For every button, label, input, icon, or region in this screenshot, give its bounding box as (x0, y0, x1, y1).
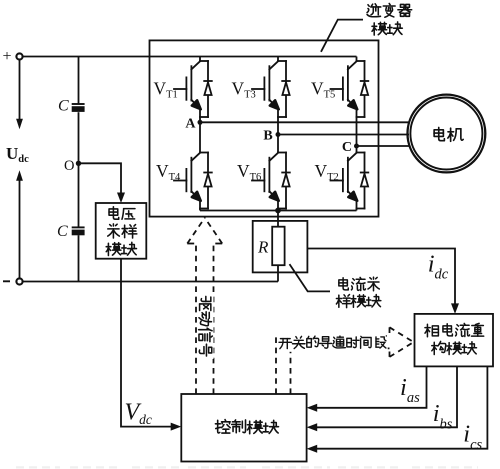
wire emitter lead upper leg B to node B (277, 109, 279, 135)
voltage sampling module box (96, 203, 147, 259)
phase current reconstruction module box (415, 314, 494, 367)
current sampling module box around R (253, 221, 308, 273)
terminal - (negative DC input) (3, 280, 10, 282)
wire emitter lead lower leg C (356, 200, 358, 210)
svg-text:C: C (58, 98, 69, 115)
node O junction dot (76, 161, 81, 166)
faint scan artifact row (16, 466, 478, 468)
wire capacitor branch lower (78, 235, 80, 281)
svg-text:C: C (342, 140, 352, 155)
transistor VT3 with freewheeling diode (252, 61, 290, 117)
wire emitter lead lower leg A (199, 200, 201, 210)
dashed switch conduction period arrow band (276, 336, 390, 394)
wire collector lead upper leg B (277, 57, 279, 62)
svg-text:B: B (263, 129, 272, 144)
capacitor C (lower) (72, 226, 85, 228)
motor M circle (408, 95, 486, 173)
capacitor C (upper) (72, 103, 85, 105)
wire collector lead upper leg C (356, 57, 358, 62)
wire emitter lead upper leg C to node C (356, 109, 358, 146)
svg-text:+: + (3, 48, 12, 65)
wire phase B to motor (278, 134, 409, 136)
label current sampling module (dian liu cai / yang mo kuai) (339, 278, 348, 290)
wire bottom DC rail (23, 281, 278, 283)
wire inverter bottom rail (200, 210, 357, 212)
wire ics from reconstruction to control (316, 366, 488, 448)
wire collector lead lower leg B (277, 135, 279, 153)
wire phase A to motor (200, 121, 409, 123)
transistor VT6 with freewheeling diode (252, 153, 290, 209)
wire collector lead lower leg A (199, 122, 201, 152)
wire collector lead upper leg A (199, 57, 201, 62)
resistor R (272, 227, 284, 266)
dashed drive signal arrow shafts (196, 244, 214, 395)
svg-text:C: C (57, 223, 68, 240)
svg-text:A: A (185, 117, 196, 132)
wire ias from reconstruction to control (316, 366, 427, 407)
wire emitter lead lower leg B (277, 200, 279, 210)
inverter module box (150, 40, 379, 216)
wire idc from shunt to reconstruction module (307, 249, 455, 305)
label inverter module (ni bian qi / mo kuai) (367, 4, 381, 17)
Udc measurement down arrow (19, 60, 21, 120)
wire bridge to shunt resistor R (277, 211, 279, 227)
label control module (kong zhi mo kuai) (215, 420, 230, 433)
dashed drive signal arrow head (187, 218, 222, 244)
wire capacitor branch upper (78, 57, 80, 105)
node B junction dot (276, 132, 281, 137)
Udc measurement up arrow (19, 180, 21, 278)
wire emitter lead upper leg A to node A (199, 109, 201, 123)
node C junction dot (354, 144, 359, 149)
svg-text:R: R (257, 238, 269, 257)
label motor (dian ji) (434, 127, 444, 140)
wire phase C to motor (357, 145, 410, 147)
wire shunt resistor to bottom rail (277, 265, 279, 281)
wire top DC rail (23, 56, 357, 58)
wire node O to voltage sampling module (79, 163, 122, 194)
label voltage sampling module text (109, 207, 119, 219)
wire ibs from reconstruction to control (316, 366, 458, 427)
wire voltage sampling module output Vdc (121, 259, 172, 427)
transistor VT1 with freewheeling diode (174, 61, 212, 117)
wire collector lead lower leg C (356, 146, 358, 153)
transistor VT5 with freewheeling diode (331, 61, 369, 117)
wire between capacitors (78, 112, 80, 227)
dashed conduction period arrow head (390, 327, 414, 357)
node A junction dot (198, 120, 203, 125)
junction dot DC-link negative of bridge (275, 208, 281, 214)
pointer line to inverter module label (321, 20, 363, 52)
transistor VT4 with freewheeling diode (174, 153, 212, 209)
label switch conduction period (kai guan de dao tong shi jian duan) (278, 334, 386, 352)
pointer line to current sampling label (290, 264, 331, 291)
label phase current reconstruction (xiang dian liu zhong / gou mo kuai) (425, 324, 438, 336)
transistor VT2 with freewheeling diode (331, 153, 369, 209)
svg-text:O: O (64, 158, 74, 174)
control module box (181, 394, 306, 462)
label drive signal (qu dong xin hao) vertical (197, 295, 213, 360)
